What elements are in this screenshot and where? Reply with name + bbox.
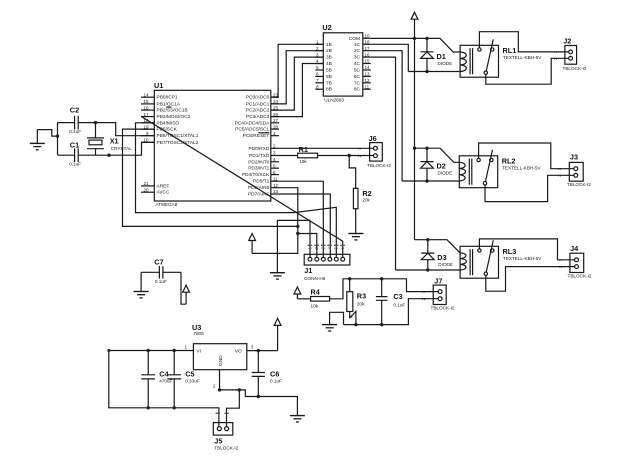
svg-text:20: 20 [143,187,149,192]
svg-text:4B: 4B [326,61,332,67]
wire RL2 common loop to J3 pin1 [479,143,574,169]
wire PB4/MISO to J1 pin 5 [136,123,337,257]
svg-text:D3: D3 [437,253,446,262]
connector J6 J6 [357,134,391,168]
wire preset ground jog [330,312,344,324]
node GND net node [238,388,241,391]
wire PB5/SCK to node [123,129,298,226]
svg-text:12: 12 [365,78,371,83]
node crystal top node [94,121,97,124]
svg-text:1C: 1C [354,42,361,48]
wire RL1 coil bottom rail [408,71,460,73]
resistor R1 10k [298,145,318,164]
node D2 anode node [425,179,428,182]
capacitor C2 0.1uF [58,106,96,134]
preset R3 20k [347,279,366,325]
relay RL1 TEXTELL-KBH-5V [460,39,542,77]
svg-text:16: 16 [365,52,371,57]
svg-text:11: 11 [365,84,370,89]
svg-text:0.1uF: 0.1uF [270,379,282,384]
svg-text:J6: J6 [369,134,377,143]
node C3 bottom node [380,323,383,326]
svg-text:C5: C5 [185,369,194,378]
connector J3 J3 [557,153,591,187]
node C6 bottom node [257,395,260,398]
wire PC3 to U2 4B [271,64,324,117]
svg-text:PD5/T1: PD5/T1 [253,179,270,185]
wire PD5/T1 to J1 pin3 [279,181,323,257]
power arrow VO power [274,318,281,350]
wire C7 to power arrow [181,272,186,304]
svg-text:1B: 1B [326,42,332,48]
svg-text:TEXTELL-KBH-5V: TEXTELL-KBH-5V [503,55,542,60]
wire bottom rail to J7 pin2 [344,299,439,325]
svg-text:5B: 5B [326,68,332,74]
svg-text:PC3/ADC3: PC3/ADC3 [246,114,270,120]
node D2 cathode node [425,147,428,150]
svg-text:PB2/SS/OC1B: PB2/SS/OC1B [157,108,188,114]
wire RL3 coil bottom rail [396,269,461,271]
node J1 pin2 tee [296,232,299,235]
svg-text:17: 17 [365,46,371,51]
svg-text:DIODE: DIODE [438,171,453,176]
wire J1 pin2 riser [298,234,317,258]
svg-text:TBLOCK-I2: TBLOCK-I2 [367,163,391,168]
node SCK tee [296,225,299,228]
resistor R2 20k [353,188,371,208]
node VI rail corner [107,349,110,352]
connector J1 CONN-H6 [304,245,350,281]
wire PD6/AIN0 net vertical [252,188,298,254]
node R3 wiper node [354,323,357,326]
wire PD7/AIN1 to J1 pin4 [279,194,330,257]
wire VI rail [109,351,219,427]
svg-text:J4: J4 [570,244,579,253]
svg-text:15: 15 [365,59,371,64]
capacitor C7 0.1uF [141,258,181,284]
node C4 top node [147,349,150,352]
svg-text:20k: 20k [357,302,365,307]
svg-text:8C: 8C [354,87,361,93]
wire GND net horizontal [220,390,298,416]
wire RL3 NO contact to J4 pin2 [486,267,575,292]
svg-text:R3: R3 [357,291,366,300]
wire D3 row top to RL3 coil [415,240,461,253]
node COM/power junction [413,37,416,40]
svg-text:20k: 20k [362,197,370,202]
regulator U3 7805 [185,323,254,388]
svg-text:15: 15 [143,99,149,104]
svg-text:6B: 6B [326,74,332,80]
connector J5 TBLOCK-I2 [213,413,238,450]
driver U2 ULN2803 [315,23,371,102]
svg-text:13: 13 [365,72,371,77]
node D1 anode node [425,70,428,73]
capacitor C6 0.1uF [252,351,282,397]
node C5 top node [173,349,176,352]
ground R2 ground [348,234,363,240]
svg-text:TBLOCK-I2: TBLOCK-I2 [214,445,238,450]
wire D1 anode lead [426,58,428,71]
svg-text:0.1uF: 0.1uF [393,303,405,308]
wire R2 to ground [355,209,357,234]
wire power vertical [414,38,416,239]
svg-text:PD2/INT0: PD2/INT0 [248,159,269,165]
svg-text:7C: 7C [354,80,361,86]
svg-text:27: 27 [273,118,279,123]
node R1/J6/R2 node [348,154,351,157]
capacitor C5 0.33uF [167,351,200,408]
svg-text:TBLOCK-I2: TBLOCK-I2 [431,306,455,311]
node GND lead node [218,388,221,391]
svg-text:2B: 2B [326,48,332,54]
svg-text:16: 16 [143,105,149,110]
power arrow VCC top [411,12,418,38]
svg-text:R4: R4 [311,287,321,296]
svg-text:RL1: RL1 [503,46,517,55]
svg-text:PD6/AIN0: PD6/AIN0 [248,185,270,191]
svg-text:8B: 8B [326,87,332,93]
connector J4 J4 [558,244,592,278]
node R3 top node [348,277,351,280]
svg-text:TBLOCK-I2: TBLOCK-I2 [568,273,592,278]
svg-text:C6: C6 [270,369,279,378]
wire XTAL1 from C2 rail [96,123,155,136]
wire VO wire [247,350,278,352]
svg-text:5C: 5C [354,68,361,74]
svg-text:PC6/RESET: PC6/RESET [243,133,270,139]
wire U3 GND lead [219,370,221,390]
relay RL3 TEXTELL-KBH-5V [460,240,542,278]
svg-text:COM: COM [349,36,360,42]
wire ground lead [36,130,38,144]
capacitor C3 0.1uF [376,279,406,325]
svg-text:PC1/ADC1: PC1/ADC1 [246,101,270,107]
node C3 top node [380,277,383,280]
svg-text:14: 14 [365,65,371,70]
diode D1 [420,38,452,65]
svg-text:RL2: RL2 [502,157,516,166]
svg-text:CONN-H6: CONN-H6 [304,276,326,281]
wire ground stub to C1/C2 rail [37,130,57,137]
svg-text:CRYSTAL: CRYSTAL [111,146,132,151]
svg-text:TEXTELL-KBH-5V: TEXTELL-KBH-5V [503,256,542,261]
wire C2/C1 left vertical [57,123,59,156]
svg-text:TEXTELL-KBH-5V: TEXTELL-KBH-5V [502,166,541,171]
svg-text:0.1uF: 0.1uF [69,129,81,134]
ground J1 ground [270,273,285,279]
svg-text:J5: J5 [214,437,222,446]
svg-text:PB3/MOSI/OC2: PB3/MOSI/OC2 [157,114,191,120]
node C6 top node [257,349,260,352]
crystal X1 [87,123,132,156]
wire D2 row top to RL2 coil [415,148,460,162]
svg-text:10k: 10k [311,303,319,308]
svg-text:C1: C1 [70,141,79,150]
ground crystal ground [30,143,45,149]
wire D2 anode lead [426,168,428,181]
power arrow R4 power [294,287,301,299]
capacitor C4 470uF [141,351,172,408]
svg-text:11: 11 [273,176,278,181]
svg-text:X1: X1 [110,137,119,146]
svg-text:PB0/ICP1: PB0/ICP1 [157,95,178,101]
svg-text:2C: 2C [354,48,361,54]
svg-text:C7: C7 [154,258,163,267]
wire node to R2 [349,156,356,189]
svg-text:J3: J3 [570,153,578,162]
capacitor C1 0.1uF [58,141,110,167]
svg-text:10: 10 [365,34,371,39]
power arrow C7 power [183,285,190,304]
svg-text:0.1uF: 0.1uF [155,279,167,284]
wire RL1 NO contact to J2 pin2 [486,58,569,84]
svg-text:12: 12 [273,183,279,188]
connector J7 J7 [421,277,455,311]
svg-text:13: 13 [273,189,279,194]
svg-text:D2: D2 [437,162,446,171]
resistor R4 10k [311,287,330,308]
wire RL2 NO contact to J3 pin2 [485,175,574,201]
microcontroller U1 ATMEGA8 [141,81,279,207]
wire 2C to RL2 coil return [371,51,402,181]
wire R4 left lead [297,298,310,300]
svg-text:VI: VI [196,348,201,354]
svg-text:ATMEGA8: ATMEGA8 [156,202,178,207]
svg-text:J2: J2 [563,36,571,45]
svg-text:U2: U2 [322,23,331,32]
wire COM rail to RL1 coil [371,38,460,52]
node D3 cathode node [426,238,429,241]
wire RL1 common loop to J2 pin1 [479,32,568,52]
svg-text:PC2/ADC2: PC2/ADC2 [246,108,270,114]
node D1 cathode node [425,37,428,40]
svg-text:TBLOCK-I2: TBLOCK-I2 [563,66,587,71]
svg-text:7805: 7805 [193,331,204,336]
wire PD1/TXD to R1 [279,155,298,157]
svg-text:DIODE: DIODE [438,61,453,66]
wire C7 to ground [140,272,142,291]
svg-text:PD4/T0/XCK: PD4/T0/XCK [242,172,270,178]
svg-text:PC0/ADC0: PC0/ADC0 [246,95,270,101]
wire RL2 coil bottom rail [402,180,459,182]
svg-text:6C: 6C [354,74,361,80]
wire R4 to preset rail [330,279,438,299]
power arrow PD6 net power [249,234,256,254]
diode D3 [421,240,453,267]
node crystal bottom node [107,154,110,157]
svg-text:18: 18 [365,40,371,45]
svg-text:GND: GND [218,355,224,366]
svg-text:C2: C2 [70,106,79,115]
svg-text:AVCC: AVCC [157,190,171,196]
wire XTAL2 from C1 rail [109,142,154,155]
wire PC0 to U2 1B [271,44,324,97]
wire D3 anode lead [427,260,429,270]
svg-text:ULN2803: ULN2803 [324,98,344,103]
svg-text:C3: C3 [393,292,402,301]
svg-text:7B: 7B [326,80,332,86]
svg-text:J1: J1 [304,266,312,275]
wire J1 pin1 to ground [277,220,310,272]
svg-text:R1: R1 [299,145,308,154]
diode D2 [420,148,452,175]
svg-text:VO: VO [235,348,242,354]
svg-text:D1: D1 [437,52,446,61]
svg-text:J7: J7 [434,277,442,286]
svg-text:PD1/TXD: PD1/TXD [249,153,270,159]
svg-text:AREF: AREF [157,183,170,189]
svg-text:TBLOCK-I2: TBLOCK-I2 [567,182,591,187]
svg-text:PB7/TOSC2/XTAL2: PB7/TOSC2/XTAL2 [157,140,199,146]
wire 1C to RL1 coil return [371,44,409,71]
svg-text:U1: U1 [154,81,163,90]
wire PB3/MOSI diagonal to J1 pin 6 [142,117,343,258]
svg-text:PD0/RXD: PD0/RXD [249,146,270,152]
node D3 anode node [426,268,429,271]
svg-text:3B: 3B [326,55,332,61]
ground preset ground [322,325,337,331]
svg-text:0.33uF: 0.33uF [185,379,200,384]
wire RL3 common loop to J4 pin1 [479,239,574,260]
ground C7 ground [134,292,149,298]
node C4 bottom node [147,406,150,409]
svg-text:3C: 3C [354,55,361,61]
svg-text:10k: 10k [299,159,307,164]
svg-text:C4: C4 [159,369,169,378]
connector J2 J2 [553,36,587,70]
svg-text:RL3: RL3 [503,247,517,256]
wire R1 to J6 pin2 [318,155,374,157]
node power/D2-row junction [413,147,416,150]
svg-text:14: 14 [143,92,149,97]
wire PD0/RXD to J6 pin1 [279,147,373,149]
ground output ground [290,416,305,422]
svg-text:0.1uF: 0.1uF [69,161,81,166]
wire PC1 to U2 2B [271,51,324,104]
svg-text:PC5/ADC5/SCL: PC5/ADC5/SCL [235,127,269,133]
svg-text:21: 21 [143,181,149,186]
node C5 bottom node [173,406,176,409]
wire PC2 to U2 3B [271,57,324,110]
svg-text:17: 17 [143,112,149,117]
wire 3C to RL3 coil return [371,57,396,270]
svg-text:PD3/INT1: PD3/INT1 [248,166,269,172]
wire J5 pin2 jog [227,390,240,427]
svg-text:PB4/MISO: PB4/MISO [157,120,180,126]
svg-text:DIODE: DIODE [438,262,453,267]
svg-text:4C: 4C [354,61,361,67]
svg-text:28: 28 [273,124,279,129]
node C-rail tap [56,134,59,137]
relay RL2 TEXTELL-KBH-5V [459,150,541,188]
svg-text:PC4/ADC4/SDA: PC4/ADC4/SDA [235,120,270,126]
